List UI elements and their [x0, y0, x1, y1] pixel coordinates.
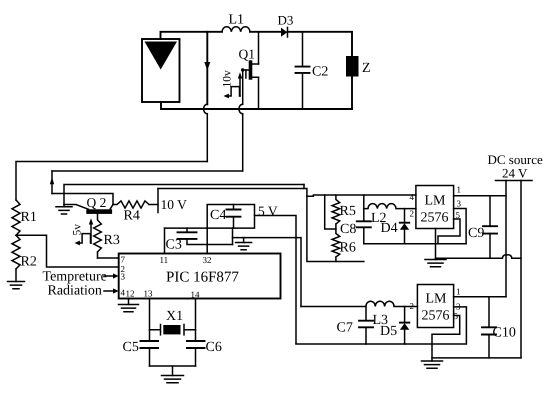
- svg-text:11: 11: [160, 255, 169, 265]
- crystal X1: [150, 325, 196, 335]
- Q2 base drive pulse source 5v: [75, 218, 94, 245]
- wire +24V rail: [505, 181, 507, 297]
- ground buck2: [422, 361, 443, 368]
- capacitor C10: [482, 297, 496, 358]
- wire node D: collector rail to R4: [52, 194, 113, 205]
- svg-text:R2: R2: [21, 255, 37, 270]
- transistor Q1 (MOSFET): [241, 60, 259, 79]
- svg-text:Q1: Q1: [239, 47, 256, 62]
- svg-text:10v: 10v: [222, 70, 234, 88]
- node 10V tap bracket: [157, 189, 159, 213]
- wire pin1 to +24V rail: [454, 195, 506, 197]
- svg-text:D4: D4: [381, 221, 398, 236]
- diode D4: [400, 209, 409, 244]
- svg-text:Tempreture: Tempreture: [43, 270, 107, 285]
- svg-text:Radiation: Radiation: [48, 284, 102, 299]
- wire gate line down to node B bus: [242, 114, 244, 171]
- transistor Q2: [64, 205, 113, 214]
- node box around C4: [165, 205, 255, 229]
- Q1 gate drive pulse source 10v: [224, 72, 243, 98]
- svg-text:3: 3: [457, 199, 462, 209]
- svg-text:R4: R4: [124, 209, 140, 224]
- wire node A bus (to R1): [16, 162, 207, 201]
- resistor R3: [94, 214, 102, 258]
- inductor L3: [301, 301, 417, 306]
- wire PIC pin 14 leg: [195, 299, 197, 367]
- svg-text:1: 1: [456, 287, 461, 297]
- svg-text:Q 2: Q 2: [87, 195, 107, 210]
- wire PIC pin 13 leg: [149, 299, 151, 367]
- node arrow up on B drop: [50, 171, 54, 194]
- ground stem buck1: [435, 229, 437, 260]
- op-amp U1: PIC 16F877 box: [119, 254, 281, 299]
- ground stem buck2: [431, 344, 433, 361]
- svg-text:PIC 16F877: PIC 16F877: [166, 270, 239, 286]
- ground on rail: [243, 238, 245, 243]
- inductor L1: [222, 27, 250, 32]
- ground at PIC pin 12: [128, 299, 130, 305]
- wire hop: gate line over bottom bus: [239, 104, 242, 113]
- diode D5: [400, 307, 409, 345]
- capacitor C2: [296, 32, 310, 109]
- wire Q1 drain to top bus: [258, 32, 260, 64]
- wire oscillator bottom: [150, 365, 196, 367]
- svg-text:C4: C4: [210, 208, 226, 223]
- resistor R6: [332, 229, 340, 262]
- svg-text:12: 12: [126, 289, 135, 299]
- wire hop: arrow line over bottom bus: [204, 104, 207, 113]
- svg-text:24 V: 24 V: [502, 166, 528, 181]
- wire C3 box right edge: [232, 228, 234, 244]
- svg-text:C7: C7: [337, 321, 353, 336]
- svg-text:2576: 2576: [422, 309, 450, 324]
- wire Q1 source to bottom bus: [258, 77, 260, 109]
- svg-text:C6: C6: [206, 340, 222, 355]
- capacitor C4: [227, 205, 241, 229]
- wire R3 to PIC pin7: [98, 257, 119, 259]
- wire bottom bus of top circuit: [161, 102, 352, 109]
- capacitor C3: [178, 228, 233, 244]
- node box around C3: [165, 228, 208, 253]
- ground below oscillator: [172, 366, 174, 376]
- svg-text:L1: L1: [229, 13, 245, 28]
- svg-text:LM: LM: [425, 194, 447, 209]
- wire L1 to D3: [250, 31, 281, 33]
- svg-text:1: 1: [457, 185, 462, 195]
- wire ground line to minus rail (hops +24V rail): [436, 255, 522, 258]
- svg-text:R5: R5: [340, 204, 356, 219]
- wire block bottom (10V node): [307, 196, 364, 261]
- svg-text:2576: 2576: [421, 211, 449, 226]
- wire pin5 loop: [432, 316, 460, 345]
- wire top bus from panel to L1: [161, 32, 223, 39]
- wire 5V rail right and down: [255, 216, 297, 344]
- ground at Q2 emitter: [63, 205, 65, 207]
- node: panel current arrow line: [204, 32, 210, 105]
- svg-text:R1: R1: [21, 210, 37, 225]
- arrow into pin 3: [104, 273, 119, 278]
- resistor R1: [12, 200, 20, 235]
- solar panel PV: [142, 39, 180, 102]
- wire R1/R2 junction to PIC pin2: [16, 235, 119, 267]
- svg-text:4: 4: [410, 192, 415, 202]
- wire arrow line down to node A bus: [206, 114, 208, 162]
- svg-text:X1: X1: [166, 309, 183, 324]
- op-amp U3: LM2576 (bottom): [417, 285, 453, 328]
- svg-text:5v: 5v: [72, 224, 84, 236]
- capacitor C6: [187, 341, 205, 348]
- ground below R2: [15, 269, 17, 282]
- wire pin5 loop to ground stem: [438, 219, 460, 244]
- inductor L2: [364, 204, 416, 209]
- svg-text:7: 7: [121, 255, 126, 265]
- svg-text:C9: C9: [468, 226, 484, 241]
- resistor R4: [113, 201, 158, 208]
- svg-text:Z: Z: [362, 61, 371, 76]
- op-amp U2: LM2576 (top): [416, 186, 454, 229]
- wire 10V rail to converter input: [158, 185, 304, 189]
- svg-text:R6: R6: [340, 241, 356, 256]
- svg-text:C5: C5: [123, 340, 139, 355]
- wire Q1 gate node down (crosses bottom bus): [242, 70, 244, 104]
- svg-text:LM: LM: [426, 292, 448, 307]
- svg-text:32: 32: [203, 255, 212, 265]
- capacitor C9: [483, 196, 497, 258]
- wire buck1 input rail / R5 network top: [325, 195, 336, 229]
- resistor R2: [12, 235, 20, 269]
- DC source bar: [496, 180, 533, 182]
- wire jog down to buck input: [304, 189, 416, 197]
- svg-text:3: 3: [121, 272, 126, 282]
- wire ground to return rail: [432, 357, 521, 359]
- svg-text:13: 13: [144, 289, 154, 299]
- svg-text:2: 2: [410, 209, 415, 219]
- capacitor C5: [141, 341, 159, 348]
- wire node C rail (Q2 emitter node to converters): [64, 185, 304, 205]
- arrow into pin 4: [104, 288, 119, 293]
- load Z: [346, 56, 359, 77]
- capacitor C8: [357, 195, 371, 244]
- wire pin3 loop to ground stem: [436, 209, 467, 244]
- svg-text:2: 2: [410, 301, 415, 311]
- svg-text:D3: D3: [278, 13, 294, 28]
- wire D4 rail to ground stem: [364, 243, 466, 245]
- capacitor C7: [359, 307, 373, 345]
- wire node B bus: [52, 170, 243, 172]
- svg-text:D5: D5: [380, 324, 397, 339]
- diode D3: [281, 27, 288, 37]
- wire pin3 loop to long ground wire: [296, 307, 466, 344]
- wire D3 to Z branch (top right): [288, 32, 353, 56]
- svg-text:C2: C2: [312, 65, 328, 80]
- wire Z bottom: [351, 77, 353, 110]
- svg-text:C3: C3: [166, 238, 182, 253]
- svg-text:C8: C8: [340, 222, 356, 237]
- svg-text:10 V: 10 V: [161, 197, 188, 212]
- svg-text:R3: R3: [104, 233, 120, 248]
- svg-text:C10: C10: [493, 326, 516, 341]
- resistor R5: [332, 195, 340, 229]
- wire return rail: [520, 181, 522, 358]
- wire pin1 to +24V rail: [454, 296, 506, 298]
- wire ground rail to bottom converter: [233, 238, 302, 307]
- ground buck1: [425, 260, 446, 267]
